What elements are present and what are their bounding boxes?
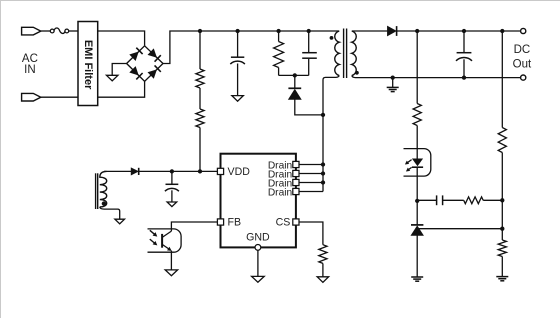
svg-text:VDD: VDD	[228, 166, 251, 178]
bridge diode D1 (left-top edge)	[129, 52, 138, 61]
U1 pin VDD	[217, 168, 223, 174]
auxiliary winding phase dot	[102, 201, 106, 205]
optocoupler U2 LED emission arrows	[406, 160, 412, 164]
svg-text:DC: DC	[514, 44, 531, 56]
optocoupler U2 LED	[412, 159, 423, 167]
wire D6 to DC out positive	[397, 30, 521, 32]
wire GND pin to ground	[257, 250, 259, 276]
wire R2 down to VDD node	[199, 128, 201, 172]
bridge diode D4 (bottom-right edge)	[148, 69, 157, 78]
node VDD / C5	[170, 169, 174, 173]
optocoupler U2 phototransistor	[161, 234, 163, 248]
wire CS pin to sense resistor	[299, 222, 323, 245]
wire snubber junction	[279, 74, 309, 76]
U1 pin Drain 1	[293, 161, 299, 167]
clamp diode D5	[288, 89, 301, 99]
wire divider RC node to ref node	[501, 200, 503, 228]
svg-text:CS: CS	[276, 217, 291, 229]
node drain bus / clamp	[321, 113, 325, 117]
node HV bus / snubber capacitor	[307, 29, 311, 33]
startup resistor R1	[196, 69, 204, 88]
controller IC U1 body	[221, 154, 296, 248]
optocoupler U2 LED enclosure	[404, 149, 431, 177]
wire EMI filter bottom output to bridge AC2	[98, 81, 145, 97]
transformer T1 secondary winding	[352, 31, 356, 76]
divider resistor R7 (lower)	[498, 240, 506, 257]
wire HV bus to bulk capacitor C1	[237, 31, 239, 57]
transformer T1 secondary phase dot	[355, 71, 359, 75]
fuse F1	[50, 29, 54, 33]
wire AC bottom terminal to EMI filter	[41, 96, 78, 98]
svg-text:Out: Out	[513, 58, 532, 70]
node HV bus / startup resistors	[198, 29, 202, 33]
secondary ground symbol	[392, 78, 394, 88]
ground under GND pin	[252, 276, 265, 282]
compensation resistor R8	[464, 197, 484, 204]
wire secondary bottom to DC out negative	[352, 76, 521, 78]
wire R1 to R2	[199, 88, 201, 109]
node divider / TL431 ref	[500, 227, 504, 231]
wire EMI filter top output to bridge AC1	[98, 31, 145, 46]
wire D8 to VDD pin	[139, 170, 218, 172]
wire bridge positive up to HV bus	[163, 31, 339, 64]
wire Drain pin 2	[299, 173, 323, 175]
DC out positive terminal	[521, 28, 526, 33]
node secondary return / ground	[391, 75, 395, 79]
AC input terminal top (line)	[22, 27, 41, 35]
bridge diode D2 (top-right edge)	[148, 48, 157, 57]
ground under aux winding	[115, 219, 125, 224]
EMI filter block	[78, 22, 98, 106]
U1 pin FB	[217, 219, 223, 225]
wire bridge negative to primary ground	[112, 64, 126, 76]
node output rail / output cap	[462, 29, 466, 33]
wire Drain pin 3	[299, 182, 323, 184]
primary ground under bridge	[106, 75, 118, 81]
wire RC node to comp capacitor C4	[417, 199, 436, 201]
bridge rectifier diamond	[127, 46, 163, 82]
svg-text:IN: IN	[24, 64, 36, 76]
current sense resistor R4	[319, 245, 327, 264]
wire R4 to ground	[322, 263, 324, 276]
wire C4 to comp resistor R8	[443, 199, 464, 201]
node output rail / opto branch	[415, 29, 419, 33]
wire phototransistor collector to FB pin	[171, 222, 217, 231]
wire phototransistor emitter to ground	[170, 251, 172, 270]
node HV bus / bulk capacitor	[235, 29, 239, 33]
wire snubber junction to clamp diode D5	[294, 75, 296, 88]
wire RC node to shunt regulator D7	[416, 201, 418, 225]
U1 pin GND	[255, 245, 261, 251]
output rectifier diode D6	[387, 26, 396, 36]
VDD capacitor C5 (electrolytic)	[166, 183, 179, 185]
svg-text:AC: AC	[22, 53, 38, 65]
wire C5 to ground	[171, 190, 173, 202]
wire fuse to EMI filter	[69, 30, 78, 32]
node HV bus / snubber resistor	[276, 29, 280, 33]
wire R6 to RC node	[501, 153, 503, 200]
divider resistor R6 (upper)	[498, 128, 506, 153]
startup resistor R2	[196, 109, 204, 128]
ground under phototransistor	[165, 270, 177, 276]
U1 pin CS	[293, 219, 299, 225]
node output rail / divider	[500, 29, 504, 33]
optocoupler U2 light arrows	[150, 230, 156, 235]
DC out negative terminal	[521, 75, 526, 80]
wire R3 to snubber junction	[278, 68, 280, 76]
wire HV bus to startup resistor R1	[199, 31, 201, 69]
VDD rectifier diode D8	[131, 168, 138, 175]
snubber resistor R3	[274, 42, 284, 68]
page border left edge	[0, 0, 2, 318]
wire output rail to output capacitor C3	[463, 31, 465, 53]
page border top edge	[0, 0, 560, 2]
wire R8 to divider node	[483, 199, 502, 201]
compensation capacitor C4	[436, 195, 438, 205]
node drain 2	[321, 171, 325, 175]
U1 pin Drain 3	[293, 179, 299, 185]
node drain 3	[321, 180, 325, 184]
U1 pin Drain 2	[293, 170, 299, 176]
transformer T1 primary winding	[335, 31, 339, 76]
optocoupler U2 phototransistor enclosure	[148, 229, 182, 252]
wire C1 to primary return arrow	[237, 64, 239, 96]
output capacitor C3 (electrolytic)	[457, 52, 472, 54]
wire R7 to ground	[501, 257, 503, 277]
svg-text:Drain: Drain	[268, 187, 292, 198]
wire drain bus vertical	[322, 115, 324, 192]
ground under C5	[167, 202, 177, 207]
node divider / RC network	[500, 198, 504, 202]
wire VDD node to capacitor C5	[171, 171, 173, 184]
svg-text:GND: GND	[246, 232, 270, 244]
wire AC top terminal to fuse	[41, 30, 51, 32]
wire HV bus to snubber resistor R3	[278, 31, 280, 42]
node VDD / startup resistors	[198, 169, 202, 173]
wire aux winding bottom to ground	[100, 207, 120, 219]
bulk capacitor C1 (electrolytic)	[231, 56, 244, 58]
transformer T1 core	[343, 29, 345, 79]
bridge diode D3 (left-bottom edge)	[129, 66, 138, 75]
AC input terminal bottom (neutral)	[22, 93, 41, 101]
node snubber junction	[293, 73, 297, 77]
wire LED cathode to RC node	[416, 167, 418, 201]
wire Drain pin 1	[299, 164, 323, 166]
wire C2 to snubber junction	[308, 59, 310, 76]
ground under D7	[411, 276, 423, 278]
node secondary return / output cap	[462, 75, 466, 79]
wire D7 ref to divider	[419, 228, 502, 230]
ground under R7	[496, 276, 508, 278]
wire D5 to drain node	[295, 100, 323, 115]
wire Drain pin 4	[299, 191, 323, 193]
wire output rail down through return rail	[416, 31, 418, 104]
shunt regulator D7 (TL431)	[411, 226, 423, 236]
wire output rail to divider resistor R6	[501, 31, 503, 128]
ground under R4	[317, 277, 328, 283]
auxiliary winding core	[95, 173, 97, 209]
wire ref node to divider resistor R7	[501, 229, 503, 240]
svg-text:FB: FB	[228, 217, 242, 229]
LED series resistor R5	[413, 104, 421, 126]
snubber capacitor C2	[302, 52, 317, 54]
primary return ground arrow under C1	[232, 96, 244, 102]
wire HV bus to snubber capacitor C2	[308, 31, 310, 52]
wire aux winding to VDD diode D8	[104, 170, 131, 172]
wire D7 anode to ground	[416, 236, 418, 277]
U1 pin Drain 4	[293, 188, 299, 194]
auxiliary winding L1	[100, 171, 107, 207]
node drain 1	[321, 162, 325, 166]
wire C3 to secondary return	[463, 59, 465, 77]
svg-text:EMI Filter: EMI Filter	[82, 40, 94, 90]
node LED cathode / RC	[415, 199, 419, 203]
wire secondary top to rectifier D6	[352, 30, 388, 32]
wire primary bottom to drain bus	[323, 76, 339, 115]
transformer T1 primary phase dot	[330, 36, 334, 40]
wire R5 to optocoupler LED	[416, 126, 418, 159]
